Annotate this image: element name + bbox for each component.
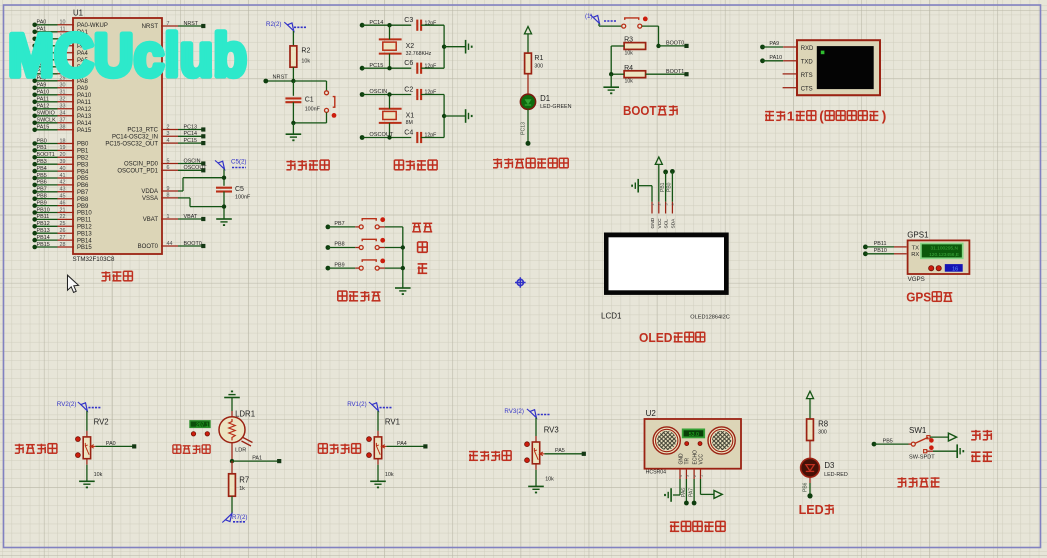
svg-text:1k: 1k — [239, 486, 245, 492]
svg-text:R7(2): R7(2) — [232, 514, 247, 521]
svg-text:BOOT0: BOOT0 — [666, 41, 684, 47]
pin PB4 (40) — [32, 166, 89, 175]
node bottom junction — [387, 135, 391, 139]
svg-text:10k: 10k — [625, 78, 634, 84]
wire R3 left rail — [611, 46, 624, 74]
svg-text:1: 1 — [787, 110, 795, 124]
svg-text:GPS1: GPS1 — [907, 231, 929, 240]
svg-text:PA9: PA9 — [769, 41, 779, 47]
svg-text:LED-GREEN: LED-GREEN — [540, 104, 572, 110]
wire R7 to power — [231, 496, 233, 513]
node PA5 terminal — [582, 452, 586, 456]
node BOOT0 terminal — [684, 44, 688, 48]
pin OSCOUT (6) — [117, 165, 207, 174]
svg-text:PA4: PA4 — [397, 441, 407, 447]
svg-text:25: 25 — [60, 221, 66, 227]
pin BOOT0 (44) — [138, 241, 206, 250]
svg-text:PB14: PB14 — [77, 238, 92, 244]
svg-text:16: 16 — [952, 266, 958, 272]
svg-text:PB15: PB15 — [77, 245, 92, 251]
svg-text:9: 9 — [167, 186, 170, 192]
svg-text:PB10: PB10 — [77, 211, 92, 217]
svg-text:C2: C2 — [404, 86, 413, 93]
svg-text:R2: R2 — [301, 48, 310, 55]
node PA1 junction — [230, 459, 234, 463]
svg-text:31.100295,N: 31.100295,N — [931, 245, 959, 251]
svg-text:C5: C5 — [235, 186, 244, 193]
wire PB10 to RX — [863, 248, 907, 256]
label ultrasonic title — [670, 521, 725, 531]
LED D3 LED-RED — [801, 458, 848, 478]
wire throw2 to ground — [927, 450, 957, 452]
potentiometer RV3 10k — [525, 426, 559, 483]
wire PA9 to RXD — [760, 41, 796, 49]
svg-text:PA0: PA0 — [106, 441, 116, 447]
node rail junction — [442, 114, 446, 118]
svg-text:38: 38 — [60, 125, 66, 131]
pin PB13 (26) — [32, 228, 92, 237]
label indicator title — [493, 158, 568, 168]
wire R4 to BOOT1 — [646, 73, 685, 75]
wire bottom — [362, 67, 411, 69]
wire C1 top — [292, 81, 294, 96]
wire pot to ground — [535, 464, 537, 487]
ultrasonic U2 box HCSR04 — [645, 409, 742, 476]
node VDDA junction — [222, 176, 226, 180]
photoresistor LDR1 — [219, 410, 255, 454]
pin PA5 (15) — [32, 55, 88, 64]
svg-text:STM32F103C8: STM32F103C8 — [73, 256, 116, 263]
svg-text:10k: 10k — [94, 472, 103, 478]
svg-text:PA15: PA15 — [37, 125, 50, 131]
power terminal VCC — [655, 157, 662, 164]
power terminal R2(2) — [266, 21, 307, 31]
capacitor C5 100nF — [216, 186, 251, 201]
svg-text:PA15: PA15 — [77, 128, 92, 134]
svg-text:OLED: OLED — [639, 331, 673, 345]
wire top — [362, 24, 411, 26]
label light-adjust title — [173, 445, 210, 453]
svg-text:PB3: PB3 — [37, 159, 47, 165]
wire to button — [328, 267, 359, 269]
svg-text:LED: LED — [799, 503, 824, 517]
svg-text:PB7: PB7 — [77, 190, 89, 196]
svg-text:ECHO: ECHO — [692, 450, 698, 465]
wire cap top to right rail — [421, 25, 444, 47]
pin PC13 (2) — [127, 124, 205, 133]
capacitor C4 12pF — [404, 129, 436, 143]
svg-text:32.768KHz: 32.768KHz — [406, 51, 432, 57]
svg-text:OSCOUT_PD1: OSCOUT_PD1 — [117, 169, 158, 175]
svg-text:PB1: PB1 — [660, 182, 666, 192]
wire R1 to D1 — [527, 74, 529, 95]
capacitor C6 12pF — [404, 60, 436, 74]
push button PB8 — [359, 238, 385, 250]
wiper wire to PA5 — [540, 448, 584, 455]
label set — [412, 223, 432, 232]
ground LDR top — [231, 391, 233, 393]
wire power to button — [599, 24, 622, 27]
node R3 BOOT0 junction — [656, 44, 660, 48]
virtual terminal box — [797, 40, 880, 95]
svg-text:D1: D1 — [540, 94, 550, 103]
power terminal RV3(2) — [504, 408, 549, 418]
pin PA8 (29) — [32, 76, 88, 85]
node PC15 terminal — [360, 63, 384, 71]
wire rail to ground — [444, 46, 466, 48]
pin numbers 1-4 — [651, 203, 675, 205]
svg-text:C3: C3 — [404, 17, 413, 24]
node C1 bottom junction — [291, 121, 295, 125]
wire pot to ground — [86, 459, 88, 482]
pin stub RTS — [783, 73, 796, 75]
wire button to R3 right — [642, 26, 659, 46]
crystal X1 8M — [379, 109, 414, 126]
svg-text:RV3(2): RV3(2) — [504, 408, 524, 415]
power terminal RV1(2) — [347, 401, 391, 411]
GPS buttons — [929, 266, 942, 271]
capacitor C2 12pF — [404, 86, 436, 100]
wire node to R7 — [231, 461, 233, 474]
wire rail to ground — [444, 115, 466, 117]
svg-text:PB0: PB0 — [667, 182, 673, 192]
svg-text:PB13: PB13 — [77, 231, 92, 237]
pin PA7 (17) — [32, 69, 74, 77]
svg-text:PA11: PA11 — [37, 97, 49, 103]
svg-text:R2(2): R2(2) — [266, 21, 281, 28]
origin marker — [515, 277, 526, 288]
svg-text:LCD1: LCD1 — [601, 312, 622, 321]
ground crystal — [466, 109, 473, 123]
ground BOOT — [603, 86, 619, 88]
wire power to C5 — [223, 169, 225, 186]
ground crystal — [466, 40, 473, 54]
svg-text:RV2: RV2 — [94, 418, 109, 427]
pin PB5 (41) — [32, 173, 89, 182]
svg-text:PA10: PA10 — [769, 55, 782, 61]
svg-text:PA10: PA10 — [77, 93, 92, 99]
ground keys — [395, 287, 411, 289]
svg-text:PB3: PB3 — [77, 162, 89, 168]
power terminal U2 VCC — [714, 490, 722, 498]
svg-text:X1: X1 — [406, 112, 415, 119]
ground RV2 — [79, 481, 95, 488]
node rail junction — [442, 45, 446, 49]
svg-text:HCSR04: HCSR04 — [646, 470, 667, 476]
svg-text:4: 4 — [671, 203, 675, 205]
svg-text:PA6: PA6 — [681, 488, 687, 497]
wire VSSA to C5 bottom node — [178, 198, 224, 207]
svg-text:20: 20 — [60, 152, 66, 158]
node SCL terminal — [663, 170, 668, 175]
svg-text:1: 1 — [651, 203, 655, 205]
LCD1 OLED display body — [604, 233, 729, 295]
svg-text:PB9: PB9 — [334, 262, 344, 268]
mouse cursor — [68, 275, 79, 292]
label BOOT-circuit title — [623, 104, 678, 118]
pin PB1 (19) — [32, 145, 89, 154]
svg-text:SDA: SDA — [670, 218, 676, 229]
svg-text:GND: GND — [678, 453, 684, 465]
power terminal (1) — [585, 13, 617, 24]
capacitor C1 100nF — [285, 97, 320, 113]
pin PA4 (14) — [32, 48, 88, 57]
svg-text:18: 18 — [60, 138, 66, 144]
resistor R7 1k — [229, 474, 250, 496]
wire VDDA to C5 node — [178, 178, 224, 191]
svg-text:VBAT: VBAT — [143, 217, 159, 223]
resistor R2 10k — [290, 46, 310, 67]
wire rail to R4 — [611, 73, 624, 75]
pin PB15 (28) — [32, 242, 92, 251]
ground U2 — [670, 488, 672, 502]
wire C1 bottom — [292, 102, 294, 123]
node SDA terminal — [670, 169, 675, 174]
node PA1 terminal — [277, 459, 281, 463]
svg-text:LED-RED: LED-RED — [824, 472, 848, 478]
svg-text:19: 19 — [60, 145, 66, 151]
svg-text:R7: R7 — [239, 476, 249, 485]
svg-text:SW1: SW1 — [909, 426, 927, 435]
wire SDA pin — [671, 171, 673, 213]
svg-text:PB8: PB8 — [37, 194, 47, 200]
wire button to rail — [379, 267, 403, 269]
svg-text:207.1: 207.1 — [196, 422, 209, 428]
svg-text:BOOT1: BOOT1 — [666, 69, 684, 75]
svg-text:BOOT1: BOOT1 — [37, 152, 55, 158]
pin OSCIN (5) — [124, 158, 205, 167]
wire cap top to right rail — [421, 95, 444, 117]
wire VCC pin — [658, 164, 660, 213]
svg-text:31: 31 — [60, 90, 66, 96]
GPS1 module box — [907, 231, 969, 274]
wire PA10 to TXD — [760, 55, 796, 63]
pin PA12 (33) — [32, 104, 91, 113]
svg-text:MCUclub: MCUclub — [8, 22, 247, 89]
node PB8 terminal — [326, 242, 345, 250]
capacitor C3 12pF — [404, 17, 436, 31]
wire VCC to power — [701, 479, 714, 494]
svg-text:PA7: PA7 — [689, 488, 695, 497]
svg-text:PC14-OSC32_IN: PC14-OSC32_IN — [112, 135, 158, 141]
svg-text:PC15-OSC32_OUT: PC15-OSC32_OUT — [105, 141, 158, 147]
svg-text:C5(2): C5(2) — [231, 159, 246, 166]
svg-text:PB9: PB9 — [37, 200, 47, 206]
pin PA15 (38) — [32, 125, 91, 134]
push button PB9 — [359, 259, 385, 271]
svg-text:43: 43 — [60, 187, 66, 193]
svg-text:PB4: PB4 — [37, 166, 47, 172]
svg-text:C4: C4 — [404, 129, 413, 136]
wire button to node — [293, 112, 326, 123]
pin PB12 (25) — [32, 221, 92, 230]
wire to button — [328, 226, 359, 228]
node rail junction — [609, 72, 613, 76]
svg-text:22: 22 — [60, 214, 66, 220]
label GPS title — [906, 291, 952, 305]
pin NRST (7) — [142, 21, 206, 30]
svg-text:BOOT0: BOOT0 — [184, 241, 202, 247]
node PB7 terminal — [326, 221, 345, 229]
wiper wire to PA0 — [91, 441, 134, 448]
pin PA0 (10) — [32, 20, 108, 29]
crystal X2 32.768KHz — [379, 39, 432, 56]
wire rail to ground — [610, 74, 612, 87]
svg-text:8M: 8M — [406, 120, 413, 126]
wire R3 to BOOT0 — [659, 45, 685, 47]
U2 readout display — [683, 429, 705, 438]
wire ECHO to PA7 — [689, 479, 697, 505]
svg-text:PB13: PB13 — [37, 228, 50, 234]
svg-text:45: 45 — [60, 194, 66, 200]
label fall — [971, 430, 992, 440]
potentiometer RV2 10k — [76, 418, 109, 478]
wire LDR to node — [231, 443, 233, 461]
svg-text:26: 26 — [60, 228, 66, 234]
svg-text:RV1: RV1 — [385, 418, 400, 427]
svg-text:PB8: PB8 — [334, 242, 344, 248]
node D1 terminal dot — [526, 141, 531, 146]
resistor R1 300 — [525, 53, 544, 74]
push button BOOT — [622, 24, 626, 28]
svg-text:41: 41 — [60, 173, 66, 179]
svg-text:34: 34 — [60, 111, 66, 117]
U2 pin stubs — [680, 469, 701, 479]
wire GND pin — [638, 186, 652, 214]
pin PB3 (39) — [32, 159, 89, 168]
resistor R8 300 — [807, 419, 828, 441]
svg-text:46: 46 — [60, 200, 66, 206]
ground C5 — [216, 218, 232, 220]
svg-text:OSCIN: OSCIN — [184, 158, 201, 164]
pin PB6 (42) — [32, 180, 89, 189]
wire D3 to terminal — [809, 477, 811, 496]
wire ground to LDR — [231, 398, 233, 417]
svg-text:OSCOUT: OSCOUT — [184, 165, 208, 171]
pin PA3 (13) — [32, 41, 88, 50]
wire button to rail — [379, 247, 403, 249]
svg-text:4: 4 — [167, 138, 170, 144]
ground RV3 — [528, 486, 544, 493]
svg-text:VCC: VCC — [657, 218, 663, 229]
svg-text:120.123456,E: 120.123456,E — [929, 252, 959, 258]
svg-text:2: 2 — [167, 124, 170, 130]
svg-text:PB12: PB12 — [37, 221, 50, 227]
wire to ground — [292, 123, 294, 134]
svg-text:PB15: PB15 — [37, 242, 50, 248]
power terminal fall — [948, 433, 956, 441]
wire top — [362, 94, 411, 96]
svg-text:OSCIN_PD0: OSCIN_PD0 — [124, 162, 159, 168]
wire button to rail — [379, 226, 403, 228]
pin PA6 (16) — [32, 62, 88, 71]
GPS display — [921, 244, 963, 259]
svg-text:10k: 10k — [301, 59, 310, 65]
wire node to PA1 — [232, 460, 278, 462]
svg-text:PB11: PB11 — [77, 218, 92, 224]
svg-text:PC13_RTC: PC13_RTC — [127, 128, 158, 134]
pin PC14 (3) — [112, 131, 205, 140]
pin PA11 (32) — [32, 97, 91, 106]
label OLED title — [639, 331, 705, 345]
svg-text:3: 3 — [664, 203, 668, 205]
svg-text:VSSA: VSSA — [142, 196, 158, 202]
svg-text:R8: R8 — [818, 419, 828, 428]
svg-text:PA10: PA10 — [37, 90, 50, 96]
pin PB0 (18) — [32, 138, 89, 147]
node D3 terminal dot — [807, 493, 812, 498]
svg-text:PB5: PB5 — [77, 176, 89, 182]
svg-text:37: 37 — [60, 118, 66, 124]
svg-text:PA5: PA5 — [555, 448, 565, 454]
svg-text:SWCLK: SWCLK — [37, 118, 57, 124]
svg-text:X2: X2 — [406, 43, 415, 50]
svg-text:VBAT: VBAT — [184, 214, 198, 220]
svg-text:PC13: PC13 — [521, 122, 527, 135]
svg-text:OLED12864I2C: OLED12864I2C — [690, 315, 730, 321]
wire NRST to button — [293, 81, 326, 91]
node OSCOUT terminal — [360, 132, 394, 140]
svg-text:PB0: PB0 — [77, 142, 89, 148]
pin PB11 (22) — [32, 214, 91, 223]
label plus — [418, 242, 428, 252]
LDR buttons — [191, 432, 209, 436]
svg-text:RV3: RV3 — [544, 426, 559, 435]
svg-text:VCC: VCC — [699, 454, 705, 465]
svg-text:300: 300 — [818, 430, 827, 436]
svg-text:C1: C1 — [305, 97, 314, 104]
svg-text:R4: R4 — [624, 65, 633, 72]
svg-text:PB4: PB4 — [77, 169, 89, 175]
svg-text:27: 27 — [60, 235, 66, 241]
svg-text:PB6: PB6 — [803, 482, 809, 492]
svg-text:PA11: PA11 — [77, 100, 91, 106]
svg-text:RX: RX — [911, 252, 919, 258]
resistor R3 10k — [624, 37, 646, 57]
svg-text:PA13: PA13 — [77, 114, 92, 120]
svg-text:GND: GND — [650, 217, 656, 228]
svg-text:GPS: GPS — [906, 291, 931, 305]
wire C5 to ground — [223, 192, 225, 220]
push button reset — [325, 91, 337, 118]
wire power to R8 — [809, 399, 811, 419]
label user-state title — [897, 477, 939, 487]
wire TR to PA6 — [681, 479, 689, 505]
svg-text:SW-SPDT: SW-SPDT — [909, 454, 935, 460]
label title — [469, 451, 511, 461]
transducer right — [708, 427, 735, 454]
node rail junction PB8 — [401, 245, 405, 249]
svg-text:42: 42 — [60, 180, 66, 186]
svg-text:PA1: PA1 — [252, 455, 262, 461]
svg-text:PB8: PB8 — [77, 197, 89, 203]
wire power to R2 — [292, 31, 294, 46]
pin PA9 (30) — [32, 83, 88, 92]
svg-text:21: 21 — [60, 207, 66, 213]
wire power to R1 — [527, 34, 529, 53]
pin labels GND VCC SCL SDA rotated — [650, 217, 676, 228]
pin PA10 (31) — [32, 90, 91, 99]
svg-text:C6: C6 — [404, 60, 413, 67]
svg-text:TX: TX — [912, 245, 920, 251]
svg-text:PC13: PC13 — [184, 124, 198, 130]
svg-text:3: 3 — [685, 475, 689, 477]
node PC14 terminal — [360, 20, 384, 28]
label LED title — [799, 503, 834, 517]
GPS blue readout 16 — [945, 264, 963, 272]
svg-text:SCL: SCL — [664, 219, 670, 229]
svg-text:1: 1 — [700, 475, 704, 477]
